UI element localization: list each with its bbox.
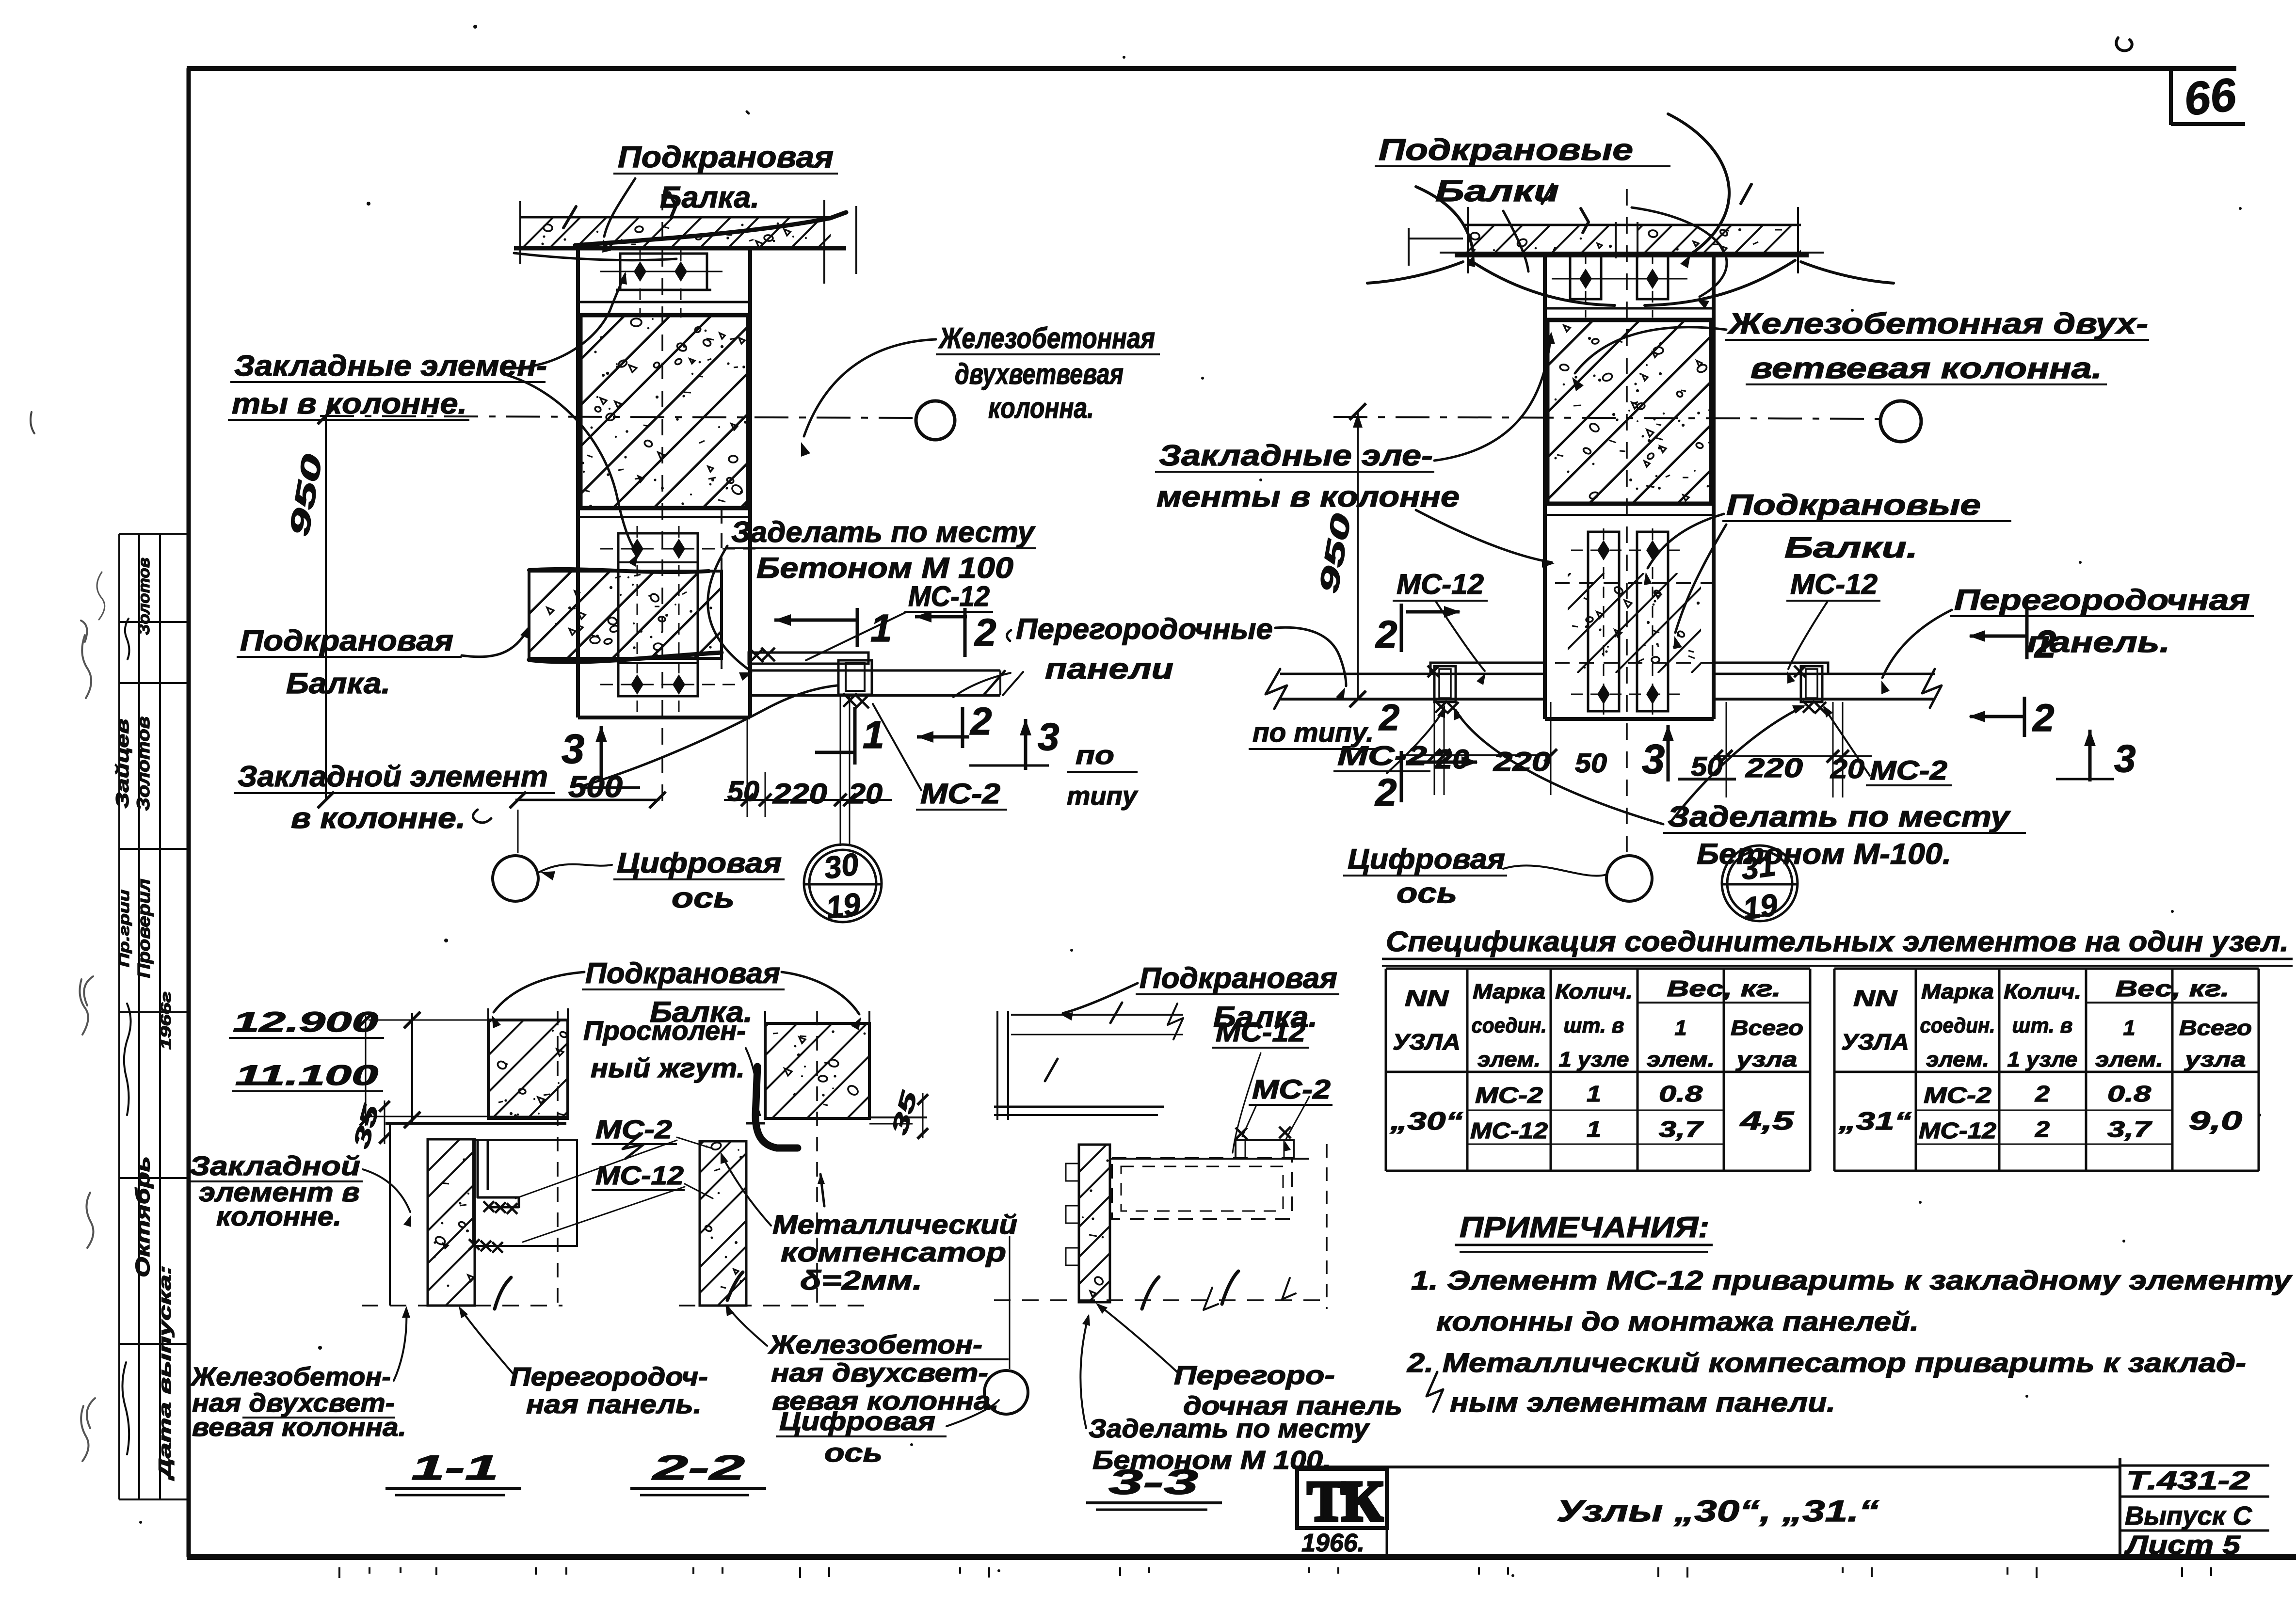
svg-text:20: 20: [1830, 753, 1864, 784]
svg-text:ось: ось: [1397, 877, 1457, 909]
svg-text:2: 2: [974, 611, 996, 654]
svg-text:МС-12: МС-12: [1470, 1118, 1548, 1143]
svg-text:2: 2: [2035, 1081, 2050, 1106]
svg-text:компенсатор: компенсатор: [781, 1237, 1006, 1267]
svg-text:элем.: элем.: [1647, 1048, 1715, 1071]
svg-text:колонна.: колонна.: [988, 392, 1094, 424]
svg-text:Перегородочные: Перегородочные: [1016, 613, 1273, 645]
svg-text:3: 3: [562, 726, 584, 772]
svg-text:3,7: 3,7: [2107, 1116, 2152, 1142]
svg-text:2: 2: [1375, 613, 1397, 656]
svg-text:30: 30: [822, 846, 861, 886]
svg-text:Цифровая: Цифровая: [779, 1407, 935, 1436]
svg-text:типу: типу: [1067, 781, 1139, 811]
svg-text:9,0: 9,0: [2189, 1106, 2242, 1135]
svg-text:МС-12: МС-12: [1919, 1118, 1996, 1143]
svg-text:2: 2: [2035, 1116, 2050, 1142]
svg-text:220: 220: [772, 778, 827, 810]
svg-text:Подкрановая: Подкрановая: [585, 957, 780, 989]
svg-text:Железобетон-: Железобетон-: [190, 1362, 391, 1391]
svg-text:МС-2: МС-2: [1924, 1083, 1992, 1108]
svg-text:1: 1: [2123, 1016, 2135, 1040]
svg-text:Цифровая: Цифровая: [1348, 844, 1505, 875]
svg-text:δ=2мм.: δ=2мм.: [800, 1265, 922, 1295]
svg-text:МС-12: МС-12: [595, 1161, 684, 1190]
svg-text:элем.: элем.: [1477, 1048, 1541, 1071]
svg-text:двухветвевая: двухветвевая: [955, 358, 1124, 390]
svg-text:Металлический: Металлический: [772, 1209, 1017, 1240]
svg-text:УЗЛА: УЗЛА: [1393, 1029, 1461, 1054]
svg-text:МС-2: МС-2: [1252, 1074, 1331, 1104]
svg-text:Закладные эле-: Закладные эле-: [1159, 439, 1433, 472]
svg-text:1: 1: [863, 713, 884, 756]
svg-text:Всего: Всего: [2179, 1016, 2252, 1040]
svg-text:1. Элемент МС-12 приварить к з: 1. Элемент МС-12 приварить к закладному …: [1411, 1265, 2293, 1295]
svg-text:МС-2: МС-2: [1475, 1083, 1543, 1108]
svg-text:Всего: Всего: [1731, 1016, 1803, 1040]
svg-text:1 узле: 1 узле: [2007, 1048, 2078, 1071]
svg-text:1-1: 1-1: [411, 1449, 498, 1487]
svg-text:менты в колонне: менты в колонне: [1156, 480, 1460, 513]
svg-text:узла: узла: [1735, 1048, 1798, 1071]
svg-text:МС-12: МС-12: [1397, 569, 1484, 600]
svg-text:„31“: „31“: [1838, 1107, 1911, 1135]
svg-text:Заделать по месту: Заделать по месту: [1089, 1414, 1370, 1443]
svg-text:Железобетон-: Железобетон-: [768, 1330, 982, 1359]
svg-text:50: 50: [1691, 751, 1723, 781]
svg-text:Балка.: Балка.: [660, 181, 759, 214]
svg-text:Колич.: Колич.: [1555, 980, 1633, 1004]
svg-text:11.100: 11.100: [235, 1060, 378, 1091]
svg-text:ветвевая колонна.: ветвевая колонна.: [1750, 352, 2102, 384]
svg-text:3: 3: [1642, 736, 1665, 782]
svg-text:Выпуск С: Выпуск С: [2125, 1501, 2252, 1530]
svg-text:3: 3: [2114, 737, 2136, 780]
svg-text:2: 2: [1374, 771, 1397, 814]
svg-text:панель.: панель.: [2027, 626, 2170, 658]
svg-text:31: 31: [1739, 847, 1778, 887]
svg-text:ты в колонне.: ты в колонне.: [232, 387, 467, 420]
svg-text:ось: ось: [824, 1438, 883, 1467]
svg-text:Лист 5: Лист 5: [2124, 1530, 2241, 1560]
svg-text:2. Металлический компесатор пр: 2. Металлический компесатор приварить к …: [1407, 1347, 2246, 1378]
svg-text:колонны до монтажа панелей.: колонны до монтажа панелей.: [1436, 1306, 1919, 1337]
svg-text:3,7: 3,7: [1659, 1116, 1704, 1142]
svg-text:колонне.: колонне.: [216, 1201, 341, 1231]
svg-text:Вес, кг.: Вес, кг.: [2116, 976, 2230, 1001]
svg-text:Заделать по месту: Заделать по месту: [731, 516, 1036, 548]
svg-text:шт. в: шт. в: [2012, 1014, 2073, 1037]
svg-text:2-2: 2-2: [651, 1449, 745, 1487]
svg-text:19: 19: [824, 886, 863, 925]
svg-text:панели: панели: [1045, 653, 1173, 685]
svg-text:0.8: 0.8: [1659, 1081, 1703, 1106]
svg-text:Колич.: Колич.: [2004, 980, 2081, 1004]
svg-text:МС-12: МС-12: [908, 581, 990, 612]
svg-text:Зайцев: Зайцев: [112, 719, 132, 809]
svg-text:1966.: 1966.: [1301, 1529, 1365, 1557]
svg-text:Цифровая: Цифровая: [617, 847, 782, 879]
svg-text:2: 2: [969, 700, 992, 743]
svg-text:узла: узла: [2184, 1048, 2246, 1071]
svg-text:Балка.: Балка.: [1213, 1001, 1317, 1033]
svg-text:„30“: „30“: [1390, 1107, 1463, 1135]
svg-text:ТК: ТК: [1307, 1469, 1383, 1533]
svg-text:220: 220: [1745, 752, 1803, 783]
svg-text:20: 20: [848, 778, 883, 810]
svg-text:УЗЛА: УЗЛА: [1841, 1029, 1909, 1054]
svg-text:соедин.: соедин.: [1472, 1014, 1547, 1037]
svg-text:1 узле: 1 узле: [1559, 1048, 1629, 1071]
svg-text:1: 1: [1675, 1016, 1687, 1040]
svg-text:в колонне.: в колонне.: [291, 802, 466, 834]
svg-text:МС-12: МС-12: [1790, 569, 1878, 600]
svg-text:1: 1: [1587, 1116, 1601, 1142]
svg-text:Балки.: Балки.: [1784, 531, 1918, 564]
svg-text:ная панель.: ная панель.: [526, 1390, 702, 1419]
svg-text:Золотов: Золотов: [133, 717, 153, 811]
svg-text:Перегородочная: Перегородочная: [1954, 584, 2250, 616]
svg-text:Закладной элемент: Закладной элемент: [238, 760, 548, 793]
svg-text:19: 19: [1741, 887, 1780, 926]
svg-text:Узлы „30“, „31.“: Узлы „30“, „31.“: [1557, 1495, 1879, 1528]
svg-text:Перегородоч-: Перегородоч-: [510, 1362, 708, 1391]
svg-text:Спецификация соединительных эл: Спецификация соединительных элементов на…: [1386, 926, 2289, 957]
svg-text:Закладные элемен-: Закладные элемен-: [234, 350, 547, 382]
svg-text:4,5: 4,5: [1740, 1106, 1795, 1135]
svg-text:12.900: 12.900: [233, 1006, 378, 1038]
svg-text:элем.: элем.: [2095, 1048, 2163, 1071]
svg-text:Подкрановые: Подкрановые: [1379, 133, 1633, 167]
svg-text:МС-2: МС-2: [1870, 755, 1947, 785]
svg-text:по типу.: по типу.: [1252, 717, 1374, 748]
svg-text:Дата выпуска:: Дата выпуска:: [156, 1265, 175, 1481]
svg-text:1966г: 1966г: [158, 991, 174, 1050]
svg-text:1: 1: [1587, 1081, 1601, 1106]
svg-text:50: 50: [727, 776, 759, 807]
svg-text:0.8: 0.8: [2107, 1081, 2151, 1106]
svg-text:шт. в: шт. в: [1564, 1014, 1624, 1037]
svg-text:Т.431-2: Т.431-2: [2126, 1466, 2250, 1495]
svg-text:ный жгут.: ный жгут.: [591, 1052, 745, 1083]
svg-text:Подкрановая: Подкрановая: [1140, 962, 1337, 994]
svg-text:Балки: Балки: [1435, 175, 1559, 208]
svg-text:Октябрь: Октябрь: [131, 1156, 154, 1277]
svg-text:соедин.: соедин.: [1920, 1014, 1995, 1037]
svg-text:по: по: [1076, 741, 1114, 770]
svg-text:220: 220: [1493, 746, 1551, 777]
svg-text:элем.: элем.: [1926, 1048, 1989, 1071]
svg-text:2: 2: [1378, 697, 1399, 738]
svg-text:3: 3: [1038, 715, 1060, 758]
svg-text:Балка.: Балка.: [286, 667, 390, 700]
svg-text:Просмолен-: Просмолен-: [583, 1015, 746, 1046]
svg-text:3-3: 3-3: [1108, 1463, 1198, 1502]
svg-text:Марка: Марка: [1473, 980, 1545, 1004]
svg-text:Железобетонная: Железобетонная: [938, 322, 1155, 354]
svg-text:Бетоном М 100: Бетоном М 100: [756, 552, 1013, 584]
svg-text:ось: ось: [672, 882, 735, 914]
svg-text:ПРИМЕЧАНИЯ:: ПРИМЕЧАНИЯ:: [1460, 1211, 1709, 1243]
svg-text:Подкрановая: Подкрановая: [240, 624, 453, 657]
svg-text:66: 66: [2182, 68, 2239, 126]
svg-text:Золотов: Золотов: [135, 558, 153, 635]
svg-text:Подкрановые: Подкрановые: [1726, 489, 1981, 521]
svg-text:Железобетонная двух-: Железобетонная двух-: [1727, 307, 2148, 340]
svg-text:Пр.грии: Пр.грии: [116, 890, 132, 967]
svg-text:50: 50: [1575, 748, 1607, 778]
svg-text:Подкрановая: Подкрановая: [618, 141, 834, 174]
svg-text:NN: NN: [1405, 986, 1449, 1011]
svg-text:ным элементам панели.: ным элементам панели.: [1450, 1387, 1835, 1418]
svg-text:МС-2: МС-2: [920, 778, 1000, 810]
svg-text:Заделать по месту: Заделать по месту: [1668, 800, 2011, 833]
svg-text:Марка: Марка: [1921, 980, 1994, 1004]
svg-text:2: 2: [2032, 696, 2055, 739]
svg-text:ная двухсвет-: ная двухсвет-: [771, 1358, 988, 1387]
svg-text:Вес, кг.: Вес, кг.: [1667, 976, 1781, 1001]
svg-text:Проверил: Проверил: [134, 879, 154, 978]
svg-text:Перегоро-: Перегоро-: [1174, 1361, 1335, 1390]
svg-text:NN: NN: [1853, 986, 1897, 1011]
